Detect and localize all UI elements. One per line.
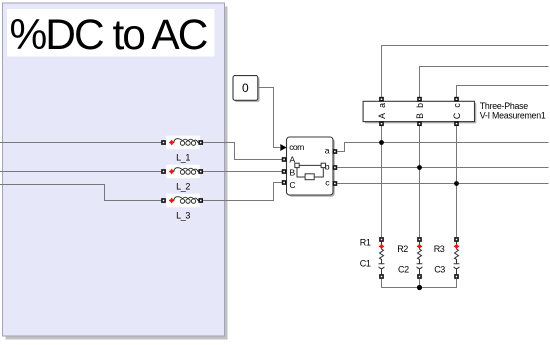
wire bus c: [337, 183, 548, 185]
constant block 0 shadow: [235, 77, 260, 102]
RC branch 1 resistor R1 and capacitor C1: [379, 237, 385, 279]
svg-text:com: com: [289, 142, 304, 152]
V-I port b top: [417, 97, 422, 102]
wire V-I b up and right: [420, 67, 549, 98]
wire L_2 to breaker B: [203, 171, 282, 173]
svg-text:Three-Phase: Three-Phase: [480, 101, 528, 111]
wire bus b: [337, 167, 548, 169]
wire left phase 2: [0, 171, 161, 173]
title box: [7, 9, 215, 57]
breaker port a: [333, 149, 338, 154]
svg-text:V-I Measuremen1: V-I Measuremen1: [480, 111, 546, 121]
junction dot phase b: [417, 165, 422, 170]
svg-text:0: 0: [242, 81, 249, 95]
wire left phase 3: [0, 185, 161, 201]
svg-text:c: c: [325, 178, 330, 188]
svg-text:C3: C3: [434, 265, 445, 275]
inductor L_1: [161, 136, 203, 150]
svg-text:b: b: [415, 103, 425, 108]
svg-text:C2: C2: [398, 265, 409, 275]
breaker port b: [333, 165, 338, 170]
wire constant to breaker com: [258, 88, 280, 148]
wire left phase 1: [0, 142, 161, 144]
wire V-I a up and right: [382, 46, 549, 98]
svg-text:L_1: L_1: [176, 153, 190, 163]
svg-text:c: c: [452, 103, 462, 108]
breaker icon snubber: [297, 168, 323, 180]
svg-text:R2: R2: [397, 244, 408, 254]
wire V-I A down to R1: [381, 126, 383, 238]
junction dot bottom bus: [417, 285, 422, 290]
constant block 0: [233, 76, 258, 101]
svg-text:C: C: [289, 180, 295, 190]
breaker com arrow: [280, 144, 286, 151]
junction dot phase a: [379, 140, 384, 145]
V-I port C bottom: [454, 121, 459, 126]
svg-text:C1: C1: [360, 259, 371, 269]
V-I measurement block shadow: [365, 103, 476, 123]
svg-text:R3: R3: [434, 244, 445, 254]
wire breaker a to bus a: [337, 143, 548, 152]
svg-text:L_3: L_3: [176, 211, 190, 221]
V-I port B bottom: [417, 121, 422, 126]
V-I port a top: [379, 97, 384, 102]
three-phase breaker block: [287, 137, 334, 195]
wire L_1 to breaker A: [203, 143, 282, 160]
svg-text:A: A: [377, 113, 387, 119]
svg-text:R1: R1: [360, 238, 371, 248]
svg-text:%DC to AC: %DC to AC: [10, 12, 208, 59]
RC branch 2 resistor R2 and capacitor C2: [417, 237, 423, 279]
wire V-I C down to R3: [456, 126, 458, 238]
V-I port c top: [454, 97, 459, 102]
RC branch 3 resistor R3 and capacitor C3: [454, 237, 460, 279]
breaker port A: [282, 157, 287, 162]
annotation panel DC to AC area: [3, 3, 225, 336]
three-phase V-I measurement block: [363, 101, 474, 121]
svg-text:C: C: [452, 112, 462, 119]
breaker icon contact squares: [295, 163, 326, 167]
breaker port C: [282, 180, 287, 185]
wire L_3 to breaker C: [203, 183, 282, 201]
inductor L_2: [161, 165, 203, 179]
junction dot phase c: [454, 181, 459, 186]
svg-text:a: a: [377, 103, 387, 108]
wire R1 to bus: [382, 279, 420, 288]
svg-text:B: B: [289, 167, 295, 177]
wire R2 to bus: [419, 279, 421, 288]
breaker block shadow: [288, 139, 335, 197]
inductor L_3: [161, 194, 203, 208]
svg-text:a: a: [325, 145, 330, 155]
svg-text:B: B: [415, 113, 425, 119]
wire V-I c up and right: [457, 86, 549, 98]
V-I port A bottom: [379, 121, 384, 126]
wire R3 to bus: [420, 279, 457, 288]
wire V-I B down to R2: [419, 126, 421, 238]
breaker port B: [282, 169, 287, 174]
breaker port c: [333, 181, 338, 186]
svg-text:L_2: L_2: [176, 182, 190, 192]
annotation panel shadow: [6, 7, 228, 340]
